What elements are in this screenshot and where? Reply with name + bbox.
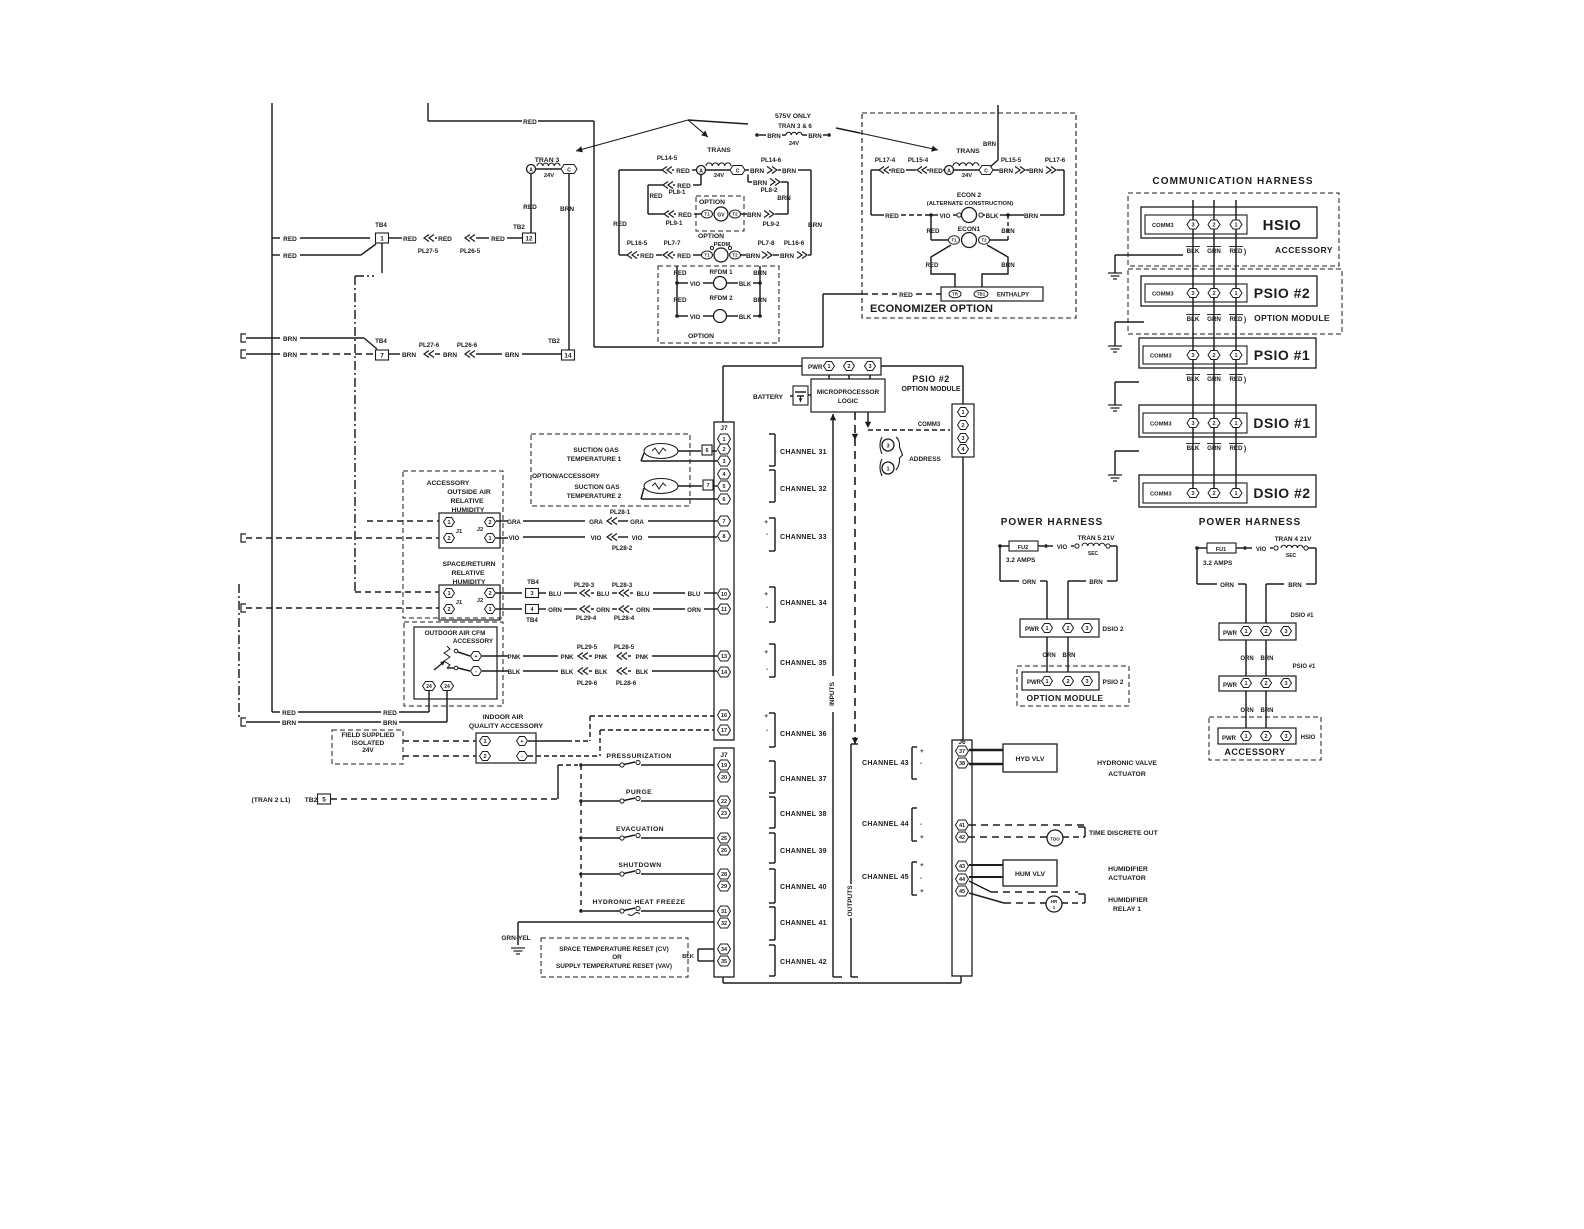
svg-text:24V: 24V <box>962 173 972 179</box>
svg-text:24V: 24V <box>544 173 554 179</box>
svg-text:2: 2 <box>488 591 491 597</box>
svg-text:COMM3: COMM3 <box>1150 353 1172 359</box>
svg-text:BRN: BRN <box>808 222 822 229</box>
svg-text:PL7-7: PL7-7 <box>664 240 681 247</box>
svg-text:RFDM 2: RFDM 2 <box>709 295 733 302</box>
svg-text:6: 6 <box>705 448 708 454</box>
svg-text:SUCTION GAS: SUCTION GAS <box>573 447 619 454</box>
svg-text:PL14-6: PL14-6 <box>761 157 782 164</box>
svg-text:3: 3 <box>1284 734 1287 740</box>
svg-text:1: 1 <box>827 364 830 370</box>
svg-text:+: + <box>474 654 477 660</box>
svg-text:1: 1 <box>1244 681 1247 687</box>
svg-text:+: + <box>764 591 768 598</box>
svg-text:VIO: VIO <box>690 282 701 288</box>
svg-text:SEC: SEC <box>1088 551 1099 557</box>
svg-text:COMMUNICATION HARNESS: COMMUNICATION HARNESS <box>1152 176 1313 187</box>
svg-text:RED: RED <box>676 168 690 175</box>
svg-text:PWR: PWR <box>808 364 823 371</box>
svg-text:PEDM: PEDM <box>714 242 731 248</box>
svg-text:ORN: ORN <box>636 607 650 614</box>
svg-text:PL9-2: PL9-2 <box>763 221 780 228</box>
svg-text:TRANS: TRANS <box>956 148 980 155</box>
svg-text:RED: RED <box>673 270 687 277</box>
svg-text:PURGE: PURGE <box>626 789 652 796</box>
svg-text:BLK: BLK <box>986 213 999 220</box>
svg-text:TEMPERATURE 2: TEMPERATURE 2 <box>567 493 622 500</box>
svg-text:43: 43 <box>959 864 965 870</box>
svg-text:): ) <box>1244 249 1246 256</box>
svg-text:TB4: TB4 <box>375 222 387 229</box>
svg-text:HUMIDIFIER: HUMIDIFIER <box>1108 866 1148 873</box>
svg-text:CHANNEL 37: CHANNEL 37 <box>780 776 827 783</box>
svg-text:2: 2 <box>1212 353 1215 359</box>
svg-text:44: 44 <box>959 877 966 883</box>
svg-text:12: 12 <box>525 235 533 242</box>
svg-text:BRN: BRN <box>782 168 796 175</box>
svg-text:BLU: BLU <box>549 591 562 598</box>
svg-text:3: 3 <box>1191 291 1194 297</box>
svg-text:PL27-6: PL27-6 <box>419 342 440 349</box>
svg-text:RED: RED <box>640 253 654 260</box>
svg-text:BRN: BRN <box>283 336 297 343</box>
svg-text:+: + <box>920 834 924 841</box>
svg-text:GRA: GRA <box>589 519 603 526</box>
svg-text:PL28-1: PL28-1 <box>610 509 631 516</box>
svg-text:RED: RED <box>891 168 905 175</box>
svg-text:CHANNEL 41: CHANNEL 41 <box>780 920 827 927</box>
svg-text:24V: 24V <box>362 747 374 754</box>
svg-text:PL17-4: PL17-4 <box>875 157 896 164</box>
svg-text:1: 1 <box>447 591 450 597</box>
svg-text:BLK: BLK <box>636 669 649 676</box>
svg-text:PWR: PWR <box>1027 680 1042 686</box>
svg-text:BRN: BRN <box>777 195 791 202</box>
svg-text:CHANNEL 34: CHANNEL 34 <box>780 600 827 607</box>
svg-text:34: 34 <box>721 947 728 953</box>
svg-text:32: 32 <box>721 921 727 927</box>
svg-text:31: 31 <box>721 909 727 915</box>
svg-text:13: 13 <box>721 654 727 660</box>
svg-text:OPTION/ACCESSORY: OPTION/ACCESSORY <box>532 473 600 480</box>
svg-text:BLK: BLK <box>1187 316 1200 323</box>
svg-text:CHANNEL 35: CHANNEL 35 <box>780 660 827 667</box>
svg-text:SEC: SEC <box>1286 553 1297 559</box>
svg-text:T1: T1 <box>704 253 710 258</box>
svg-text:SUCTION GAS: SUCTION GAS <box>574 484 620 491</box>
svg-text:C: C <box>567 168 571 174</box>
svg-text:PL8-2: PL8-2 <box>761 187 778 194</box>
svg-text:2: 2 <box>1066 679 1069 685</box>
svg-text:OUTDOOR AIR CFM: OUTDOOR AIR CFM <box>425 630 486 637</box>
svg-text:PL7-8: PL7-8 <box>758 240 775 247</box>
svg-text:23: 23 <box>721 811 727 817</box>
svg-text:C: C <box>984 169 988 175</box>
svg-text:BRN: BRN <box>746 253 760 260</box>
svg-text:C: C <box>736 169 740 175</box>
svg-text:3: 3 <box>868 364 871 370</box>
svg-text:28: 28 <box>721 872 727 878</box>
svg-text:SUPPLY TEMPERATURE RESET (VAV): SUPPLY TEMPERATURE RESET (VAV) <box>556 963 672 970</box>
svg-text:FU1: FU1 <box>1216 547 1226 553</box>
svg-text:GRN: GRN <box>1207 445 1221 452</box>
svg-text:PNK: PNK <box>560 654 574 661</box>
svg-text:PL28-2: PL28-2 <box>612 545 633 552</box>
svg-text:BRN: BRN <box>753 180 767 187</box>
svg-text:POWER HARNESS: POWER HARNESS <box>1199 517 1301 528</box>
svg-text:(TRAN 2 L1): (TRAN 2 L1) <box>252 797 291 804</box>
svg-text:42: 42 <box>959 835 965 841</box>
svg-text:1: 1 <box>722 437 725 443</box>
svg-text:PL28-5: PL28-5 <box>614 644 635 651</box>
svg-text:2: 2 <box>1264 681 1267 687</box>
svg-text:3: 3 <box>1284 681 1287 687</box>
svg-text:PL16-6: PL16-6 <box>784 240 805 247</box>
svg-text:SPACE TEMPERATURE RESET (CV): SPACE TEMPERATURE RESET (CV) <box>559 946 668 953</box>
svg-text:24: 24 <box>426 684 432 690</box>
svg-text:ORN: ORN <box>1240 656 1253 662</box>
svg-text:BRN: BRN <box>753 270 767 277</box>
svg-text:-: - <box>521 754 523 760</box>
svg-text:TB4: TB4 <box>375 338 387 345</box>
svg-text:3: 3 <box>1191 491 1194 497</box>
svg-text:2: 2 <box>961 423 964 429</box>
svg-text:TRAN 3 & 6: TRAN 3 & 6 <box>778 123 812 130</box>
svg-text:HYD VLV: HYD VLV <box>1016 756 1045 763</box>
svg-text:PL28-4: PL28-4 <box>614 615 635 622</box>
svg-text:J6: J6 <box>958 739 966 746</box>
svg-text:1: 1 <box>380 235 384 242</box>
svg-text:2: 2 <box>1066 626 1069 632</box>
svg-text:OPTION MODULE: OPTION MODULE <box>1254 313 1330 323</box>
svg-text:BRN: BRN <box>560 206 574 213</box>
svg-text:24: 24 <box>444 684 450 690</box>
svg-text:BRN: BRN <box>1288 582 1302 589</box>
svg-text:BRN: BRN <box>753 297 767 304</box>
svg-text:41: 41 <box>959 823 965 829</box>
svg-text:14: 14 <box>564 352 572 359</box>
svg-text:PL29-4: PL29-4 <box>576 615 597 622</box>
svg-text:16: 16 <box>721 713 727 719</box>
svg-text:VIO: VIO <box>1057 545 1068 551</box>
svg-text:GRN-YEL: GRN-YEL <box>501 935 530 942</box>
svg-text:OUTPUTS: OUTPUTS <box>847 885 854 917</box>
svg-text:T1: T1 <box>951 238 957 243</box>
svg-text:COMM3: COMM3 <box>1152 291 1174 297</box>
svg-text:RED: RED <box>678 212 692 219</box>
svg-text:ORN: ORN <box>596 607 610 614</box>
svg-text:EVACUATION: EVACUATION <box>616 826 664 833</box>
svg-text:ACCESSORY: ACCESSORY <box>427 480 470 487</box>
svg-text:PL8-1: PL8-1 <box>669 189 686 196</box>
svg-text:DSIO #1: DSIO #1 <box>1253 415 1310 431</box>
svg-text:LOGIC: LOGIC <box>838 398 859 405</box>
svg-text:TDO: TDO <box>1050 837 1060 842</box>
svg-text:ACTUATOR: ACTUATOR <box>1108 875 1146 882</box>
svg-text:7: 7 <box>380 352 384 359</box>
svg-text:A: A <box>699 169 703 175</box>
svg-text:COMM3: COMM3 <box>1152 223 1174 229</box>
svg-text:3: 3 <box>1085 626 1088 632</box>
svg-text:PL29-3: PL29-3 <box>574 582 595 589</box>
svg-text:J1: J1 <box>456 600 463 606</box>
svg-text:HYDRONIC HEAT FREEZE: HYDRONIC HEAT FREEZE <box>593 899 686 906</box>
svg-text:20: 20 <box>721 775 727 781</box>
svg-text:CHANNEL 42: CHANNEL 42 <box>780 959 827 966</box>
svg-text:2: 2 <box>488 520 491 526</box>
svg-text:+: + <box>920 888 924 895</box>
svg-text:HYDRONIC VALVE: HYDRONIC VALVE <box>1097 760 1157 767</box>
svg-text:GRN: GRN <box>1207 248 1221 255</box>
svg-text:DSIO 2: DSIO 2 <box>1102 626 1124 633</box>
svg-text:BRN: BRN <box>808 133 822 140</box>
svg-text:BLK: BLK <box>1187 248 1200 255</box>
svg-text:2: 2 <box>447 607 450 613</box>
svg-text:OR: OR <box>612 954 622 961</box>
svg-text:PNK: PNK <box>594 654 608 661</box>
svg-text:ORN: ORN <box>1220 582 1234 589</box>
svg-text:OUTSIDE AIR: OUTSIDE AIR <box>447 489 491 496</box>
svg-text:MICROPROCESSOR: MICROPROCESSOR <box>817 389 880 396</box>
svg-text:7: 7 <box>706 483 709 489</box>
svg-text:CHANNEL 32: CHANNEL 32 <box>780 486 827 493</box>
svg-text:3: 3 <box>1191 222 1194 228</box>
svg-text:3: 3 <box>1191 353 1194 359</box>
svg-text:INPUTS: INPUTS <box>829 681 836 706</box>
svg-text:17: 17 <box>721 728 727 734</box>
svg-text:TB1: TB1 <box>977 292 986 297</box>
svg-text:ACTUATOR: ACTUATOR <box>1108 771 1146 778</box>
svg-text:BLK: BLK <box>595 669 608 676</box>
svg-text:ORN: ORN <box>1240 708 1253 714</box>
svg-text:BRN: BRN <box>1024 213 1038 220</box>
svg-text:RED: RED <box>677 253 691 260</box>
svg-text:BRN: BRN <box>282 720 296 727</box>
svg-text:TB2: TB2 <box>548 338 560 345</box>
svg-text:HUM VLV: HUM VLV <box>1015 871 1046 878</box>
svg-text:BLK: BLK <box>739 315 752 321</box>
svg-text:TRAN 4 21V: TRAN 4 21V <box>1275 536 1313 543</box>
svg-text:BRN: BRN <box>283 352 297 359</box>
svg-text:BRN: BRN <box>1261 656 1274 662</box>
svg-text:BRN: BRN <box>750 168 764 175</box>
svg-text:2: 2 <box>722 447 725 453</box>
svg-text:T2: T2 <box>981 238 987 243</box>
svg-text:BLK: BLK <box>682 954 695 960</box>
svg-text:CHANNEL 31: CHANNEL 31 <box>780 449 827 456</box>
svg-text:RED: RED <box>383 710 397 717</box>
svg-text:3: 3 <box>961 436 964 442</box>
svg-text:RED: RED <box>1229 376 1243 383</box>
svg-text:1: 1 <box>488 536 491 542</box>
svg-text:J7: J7 <box>720 425 728 432</box>
svg-text:): ) <box>1244 446 1246 453</box>
svg-text:PL26-6: PL26-6 <box>457 342 478 349</box>
svg-text:PL15-4: PL15-4 <box>908 157 929 164</box>
svg-text:PL16-5: PL16-5 <box>627 240 648 247</box>
svg-text:24V: 24V <box>714 173 724 179</box>
svg-text:10: 10 <box>721 592 727 598</box>
svg-text:CHANNEL 38: CHANNEL 38 <box>780 811 827 818</box>
svg-text:2: 2 <box>483 754 486 760</box>
svg-text:GRN: GRN <box>1207 316 1221 323</box>
svg-text:ECONOMIZER OPTION: ECONOMIZER OPTION <box>870 303 993 315</box>
svg-text:4: 4 <box>530 607 534 613</box>
svg-text:1: 1 <box>886 467 889 473</box>
svg-text:DSIO #2: DSIO #2 <box>1253 485 1310 501</box>
svg-text:INDOOR AIR: INDOOR AIR <box>483 714 524 721</box>
svg-text:PRESSURIZATION: PRESSURIZATION <box>606 753 671 760</box>
svg-text:GRN: GRN <box>1207 376 1221 383</box>
svg-text:OPTION: OPTION <box>688 333 714 340</box>
svg-text:VIO: VIO <box>1256 547 1267 553</box>
svg-text:TIME DISCRETE OUT: TIME DISCRETE OUT <box>1089 830 1159 837</box>
svg-text:OPTION MODULE: OPTION MODULE <box>1027 693 1104 703</box>
svg-text:PL15-5: PL15-5 <box>1001 157 1022 164</box>
svg-text:PSIO #1: PSIO #1 <box>1293 664 1316 670</box>
svg-text:RED: RED <box>403 236 417 243</box>
svg-text:+: + <box>520 739 523 745</box>
svg-text:OPTION: OPTION <box>698 233 724 240</box>
svg-text:RELATIVE: RELATIVE <box>450 498 484 505</box>
svg-text:35: 35 <box>721 959 727 965</box>
svg-text:2: 2 <box>1212 421 1215 427</box>
svg-text:T2: T2 <box>732 253 738 258</box>
svg-text:BRN: BRN <box>1001 228 1015 235</box>
svg-text:FIELD SUPPLIED: FIELD SUPPLIED <box>341 732 394 739</box>
svg-text:CHANNEL 45: CHANNEL 45 <box>862 874 909 881</box>
svg-text:PL28-3: PL28-3 <box>612 582 633 589</box>
svg-text:-: - <box>920 760 922 767</box>
svg-text:RED: RED <box>926 228 940 235</box>
svg-text:ORN: ORN <box>687 607 701 614</box>
svg-text:PWR: PWR <box>1223 631 1238 637</box>
svg-text:HSIO: HSIO <box>1263 217 1302 234</box>
svg-text:1: 1 <box>483 739 486 745</box>
svg-text:BLU: BLU <box>597 591 610 598</box>
svg-text:3: 3 <box>1191 421 1194 427</box>
svg-text:-: - <box>920 821 922 828</box>
svg-text:1: 1 <box>1234 291 1237 297</box>
svg-text:-: - <box>766 727 768 734</box>
svg-text:BLK: BLK <box>1187 376 1200 383</box>
svg-text:GV: GV <box>717 213 725 219</box>
svg-text:2: 2 <box>1212 222 1215 228</box>
svg-text:POWER HARNESS: POWER HARNESS <box>1001 517 1103 528</box>
svg-text:COMM3: COMM3 <box>918 422 941 428</box>
svg-text:BLU: BLU <box>688 591 701 598</box>
svg-text:TR: TR <box>952 292 959 297</box>
svg-text:+: + <box>920 748 924 755</box>
svg-text:ENTHALPY: ENTHALPY <box>997 293 1029 299</box>
svg-text:ACCESSORY: ACCESSORY <box>1224 747 1285 757</box>
svg-text:ORN: ORN <box>1042 653 1055 659</box>
svg-text:PL9-1: PL9-1 <box>666 220 683 227</box>
svg-text:RED: RED <box>899 292 913 299</box>
svg-text:RED: RED <box>523 204 537 211</box>
svg-text:37: 37 <box>959 749 965 755</box>
svg-text:6: 6 <box>722 497 725 503</box>
svg-text:FU2: FU2 <box>1018 545 1028 551</box>
svg-text:1: 1 <box>488 607 491 613</box>
svg-text:22: 22 <box>721 799 727 805</box>
svg-text:RED: RED <box>929 168 943 175</box>
svg-text:A: A <box>947 169 951 175</box>
svg-text:BLK: BLK <box>561 669 574 676</box>
svg-text:BRN: BRN <box>1001 262 1015 269</box>
svg-text:RED: RED <box>283 236 297 243</box>
svg-text:PWR: PWR <box>1025 627 1040 633</box>
svg-text:TB2: TB2 <box>513 224 525 231</box>
svg-text:5: 5 <box>722 484 725 490</box>
svg-text:OPTION MODULE: OPTION MODULE <box>901 386 960 393</box>
svg-text:CHANNEL 39: CHANNEL 39 <box>780 848 827 855</box>
svg-text:J7: J7 <box>720 752 728 759</box>
svg-text:PSIO #2: PSIO #2 <box>912 374 950 384</box>
svg-text:A: A <box>529 168 533 174</box>
svg-text:45: 45 <box>959 889 965 895</box>
svg-text:J1: J1 <box>456 529 463 535</box>
svg-text:RELAY 1: RELAY 1 <box>1113 906 1141 913</box>
svg-text:RED: RED <box>282 710 296 717</box>
svg-text:BRN: BRN <box>1261 708 1274 714</box>
svg-text:2: 2 <box>1264 734 1267 740</box>
svg-text:26: 26 <box>721 848 727 854</box>
svg-text:TB4: TB4 <box>526 617 538 624</box>
svg-text:GRA: GRA <box>507 519 521 526</box>
svg-text:RED: RED <box>438 236 452 243</box>
svg-text:ACCESSORY: ACCESSORY <box>1275 245 1333 255</box>
svg-text:BRN: BRN <box>383 720 397 727</box>
svg-text:T1: T1 <box>704 212 710 217</box>
svg-text:19: 19 <box>721 763 727 769</box>
svg-text:VIO: VIO <box>690 315 701 321</box>
svg-text:1: 1 <box>1234 353 1237 359</box>
svg-text:ORN: ORN <box>548 607 562 614</box>
svg-text:TRANS: TRANS <box>707 147 731 154</box>
svg-text:CHANNEL 40: CHANNEL 40 <box>780 884 827 891</box>
svg-text:RED: RED <box>613 221 627 228</box>
svg-text:PSIO 2: PSIO 2 <box>1103 679 1124 686</box>
svg-text:PL14-5: PL14-5 <box>657 155 678 162</box>
svg-text:VIO: VIO <box>940 213 951 220</box>
svg-text:CHANNEL 36: CHANNEL 36 <box>780 731 827 738</box>
svg-text:-: - <box>766 666 768 673</box>
svg-text:PL29-6: PL29-6 <box>577 680 598 687</box>
svg-text:8: 8 <box>722 534 725 540</box>
svg-text:GRA: GRA <box>630 519 644 526</box>
svg-text:5: 5 <box>322 796 326 803</box>
svg-text:+: + <box>764 519 768 526</box>
svg-text:BRN: BRN <box>443 352 457 359</box>
svg-text:2: 2 <box>847 364 850 370</box>
svg-text:RED: RED <box>491 236 505 243</box>
svg-text:RED: RED <box>523 119 537 126</box>
svg-text:HR: HR <box>1051 899 1058 904</box>
svg-text:PL28-6: PL28-6 <box>616 680 637 687</box>
svg-text:BRN: BRN <box>767 133 781 140</box>
svg-text:3.2 AMPS: 3.2 AMPS <box>1006 557 1036 564</box>
svg-text:2: 2 <box>1212 291 1215 297</box>
svg-text:DSIO #1: DSIO #1 <box>1290 613 1314 619</box>
svg-text:PL29-5: PL29-5 <box>577 644 598 651</box>
svg-text:38: 38 <box>959 761 965 767</box>
svg-text:7: 7 <box>722 519 725 525</box>
svg-text:25: 25 <box>721 836 727 842</box>
svg-text:BRN: BRN <box>1063 653 1076 659</box>
svg-text:-: - <box>475 669 477 675</box>
svg-text:+: + <box>920 862 924 869</box>
